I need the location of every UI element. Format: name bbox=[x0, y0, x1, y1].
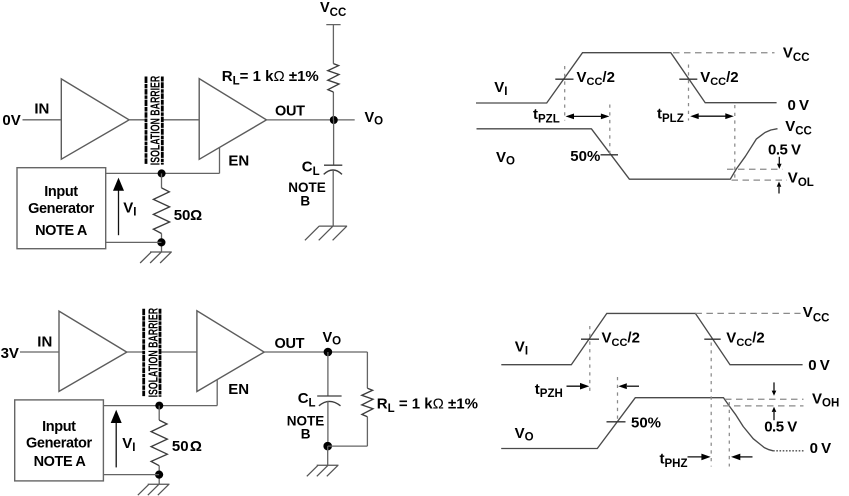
svg-text:VI: VI bbox=[494, 79, 507, 98]
svg-text:0 V: 0 V bbox=[810, 440, 832, 457]
svg-text:VOH: VOH bbox=[812, 390, 839, 409]
svg-text:VO: VO bbox=[515, 425, 534, 444]
svg-text:VCC/2: VCC/2 bbox=[700, 69, 738, 88]
svg-text:0 V: 0 V bbox=[808, 357, 830, 374]
svg-text:NOTE A: NOTE A bbox=[34, 454, 87, 470]
svg-text:VOL: VOL bbox=[788, 170, 814, 189]
svg-text:CL: CL bbox=[302, 158, 320, 177]
svg-text:VO: VO bbox=[323, 330, 342, 348]
svg-text:50%: 50% bbox=[570, 148, 600, 165]
svg-text:50: 50 bbox=[174, 207, 191, 224]
svg-text:OUT: OUT bbox=[275, 336, 305, 352]
svg-text:B: B bbox=[301, 426, 311, 441]
svg-text:VI: VI bbox=[123, 199, 136, 218]
svg-text:Input: Input bbox=[42, 419, 76, 435]
svg-text:0V: 0V bbox=[2, 112, 20, 129]
svg-text:tPHZ: tPHZ bbox=[660, 451, 688, 470]
svg-text:NOTE A: NOTE A bbox=[35, 223, 88, 239]
svg-text:OUT: OUT bbox=[275, 104, 305, 120]
svg-text:VO: VO bbox=[365, 110, 384, 128]
svg-text:tPLZ: tPLZ bbox=[657, 106, 684, 125]
svg-text:VCC: VCC bbox=[785, 118, 812, 138]
svg-text:0 V: 0 V bbox=[788, 97, 810, 114]
svg-text:VI: VI bbox=[515, 339, 528, 358]
svg-text:Generator: Generator bbox=[28, 201, 94, 217]
svg-text:EN: EN bbox=[228, 153, 249, 170]
svg-text:RL= 1 kΩ ±1%: RL= 1 kΩ ±1% bbox=[222, 68, 319, 87]
svg-text:RL = 1 kΩ ±1%: RL = 1 kΩ ±1% bbox=[377, 396, 478, 415]
svg-text:VCC/2: VCC/2 bbox=[602, 329, 640, 348]
svg-text:tPZH: tPZH bbox=[535, 381, 563, 400]
svg-text:Ω: Ω bbox=[190, 207, 202, 224]
svg-text:IN: IN bbox=[37, 334, 52, 351]
svg-text:50: 50 bbox=[172, 438, 189, 455]
svg-text:IN: IN bbox=[34, 101, 49, 118]
svg-text:VI: VI bbox=[122, 435, 135, 454]
svg-text:VCC: VCC bbox=[803, 304, 830, 324]
svg-text:VCC: VCC bbox=[783, 44, 810, 64]
svg-text:CL: CL bbox=[298, 390, 316, 409]
svg-text:tPZL: tPZL bbox=[533, 106, 560, 125]
svg-text:Ω: Ω bbox=[190, 438, 202, 455]
svg-text:VO: VO bbox=[496, 149, 515, 168]
svg-text:Generator: Generator bbox=[26, 435, 92, 451]
svg-text:VCC/2: VCC/2 bbox=[577, 69, 615, 88]
svg-text:Input: Input bbox=[44, 184, 78, 200]
svg-text:EN: EN bbox=[228, 381, 249, 398]
svg-text:0.5 V: 0.5 V bbox=[768, 141, 801, 158]
svg-text:0.5 V: 0.5 V bbox=[764, 418, 797, 435]
svg-text:B: B bbox=[300, 193, 310, 208]
svg-text:50%: 50% bbox=[631, 415, 661, 432]
svg-text:VCC/2: VCC/2 bbox=[726, 329, 764, 348]
svg-text:VCC: VCC bbox=[320, 0, 346, 19]
svg-text:3V: 3V bbox=[1, 345, 19, 362]
